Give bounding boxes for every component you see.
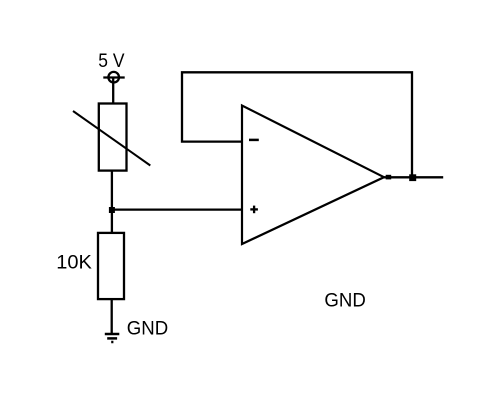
- svg-text:5 V: 5 V: [98, 51, 124, 72]
- wire thermistor to node A: [111, 171, 113, 210]
- junction dot output feedback node: [409, 174, 416, 181]
- op-amp U1: [242, 106, 384, 245]
- wire node A to op-amp + input: [112, 208, 242, 210]
- thermistor diagonal stroke: [73, 111, 150, 166]
- resistor R1 body: [98, 233, 124, 299]
- svg-text:GND: GND: [127, 319, 168, 340]
- thermistor RT1 body: [99, 104, 127, 171]
- wire node A to resistor R1: [111, 210, 113, 233]
- node A junction dot: [109, 207, 115, 213]
- wire power to thermistor: [112, 78, 114, 105]
- op-amp non-inverting input label +: [250, 206, 258, 214]
- junction dot at op-amp output apex: [386, 175, 392, 180]
- ground symbol: [105, 334, 120, 342]
- op-amp inverting input label -: [249, 139, 259, 142]
- svg-text:10K: 10K: [56, 253, 92, 274]
- wire resistor to ground: [111, 299, 113, 334]
- feedback wire output to inverting input: [182, 72, 412, 177]
- power terminal 5V: [103, 72, 124, 83]
- svg-text:GND: GND: [324, 290, 365, 311]
- output wire: [384, 176, 443, 178]
